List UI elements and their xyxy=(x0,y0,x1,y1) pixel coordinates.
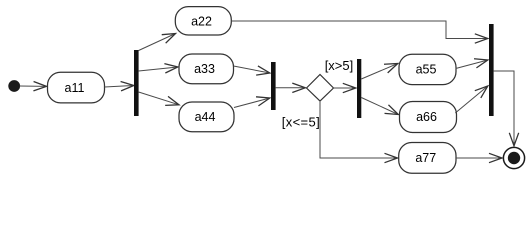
action a44 xyxy=(179,102,234,132)
initial node xyxy=(9,81,20,92)
wire a55 to join J4 xyxy=(456,60,488,69)
activity final node xyxy=(503,147,524,168)
action a22 xyxy=(175,7,231,35)
wire J4 to final node xyxy=(494,71,514,146)
svg-text:[x>5]: [x>5] xyxy=(325,58,354,73)
action a33 xyxy=(179,54,234,84)
wire J2 to decision xyxy=(276,87,306,89)
wire a22 to join J4 (top route) xyxy=(231,21,488,39)
wire a66 to join J4 xyxy=(455,86,488,113)
fork bar F1 xyxy=(134,50,139,116)
action a55 xyxy=(399,54,456,84)
wire F1 to a44 xyxy=(139,92,179,105)
svg-text:a33: a33 xyxy=(194,62,215,76)
join bar J4 xyxy=(489,24,494,116)
svg-text:a11: a11 xyxy=(65,81,85,95)
svg-text:a55: a55 xyxy=(416,63,437,77)
wire a33 to join J2 xyxy=(234,66,270,73)
wire F1 to a33 xyxy=(139,67,178,71)
wire F3 to a66 xyxy=(361,98,398,115)
decision diamond xyxy=(307,75,334,102)
wire F1 to a22 xyxy=(139,34,176,51)
svg-text:[x<=5]: [x<=5] xyxy=(282,115,320,130)
wire decision to a77 xyxy=(320,101,398,158)
wire a11 to fork F1 xyxy=(105,86,134,88)
action a66 xyxy=(400,102,457,133)
svg-text:a44: a44 xyxy=(195,110,216,124)
wire a77 to final node xyxy=(456,157,502,159)
wire decision to fork F3 xyxy=(334,87,356,89)
action a77 xyxy=(399,143,456,174)
svg-text:a77: a77 xyxy=(415,151,436,165)
fork bar F3 xyxy=(357,59,361,118)
guard label [x<=5] xyxy=(282,115,320,130)
guard label [x>5] xyxy=(325,58,354,73)
svg-text:a66: a66 xyxy=(416,110,437,124)
svg-text:a22: a22 xyxy=(191,14,212,28)
join bar J2 xyxy=(271,62,276,110)
wire F3 to a55 xyxy=(361,64,398,80)
wire initial to a11 xyxy=(20,85,47,87)
wire a44 to join J2 xyxy=(234,98,270,108)
action a11 xyxy=(48,72,105,103)
